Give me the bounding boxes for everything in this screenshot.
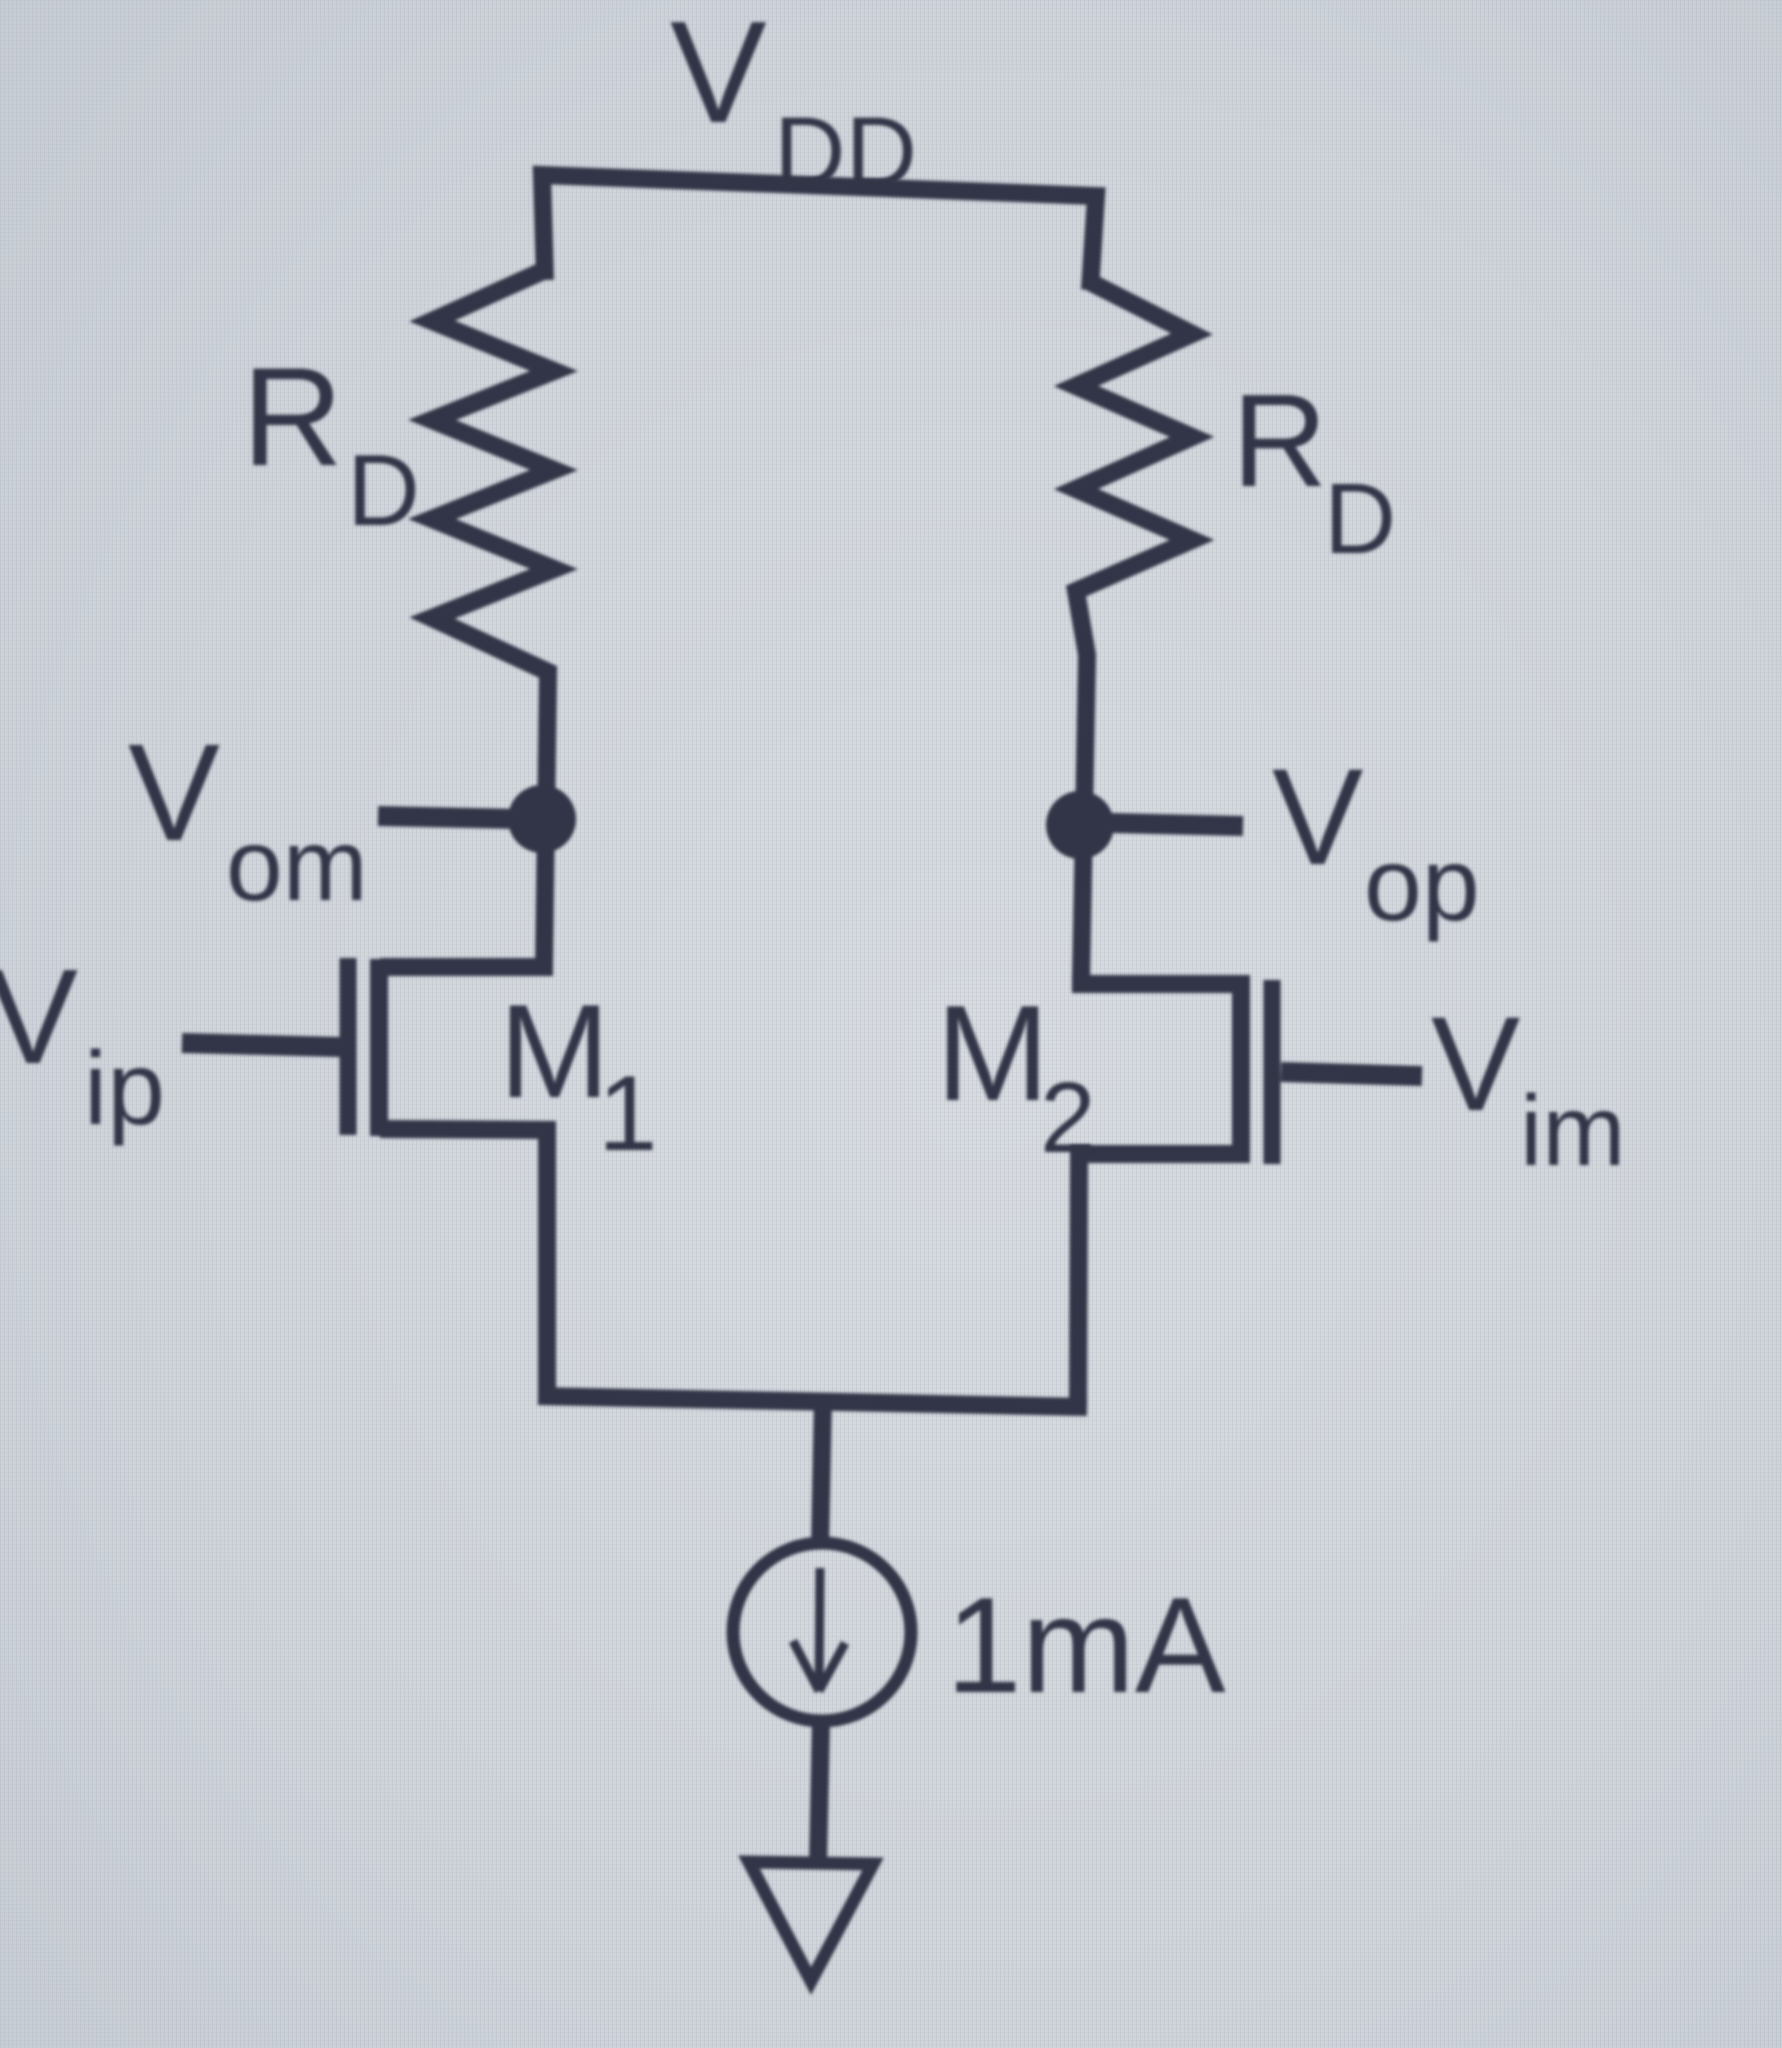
wire: Vop lead xyxy=(1110,823,1243,826)
wire: VDD top rail with corner stubs xyxy=(542,175,1096,290)
transistor M2 drain lead xyxy=(1072,975,1250,993)
svg-text:op: op xyxy=(1364,827,1480,943)
wire: Vom lead xyxy=(378,816,522,819)
svg-text:M: M xyxy=(936,977,1049,1129)
resistor RD (right) zigzag into drain wire xyxy=(1076,282,1192,984)
svg-text:V: V xyxy=(1431,990,1520,1139)
svg-text:D: D xyxy=(347,435,420,547)
transistor M1 drain lead xyxy=(380,958,553,976)
svg-text:M: M xyxy=(499,978,610,1126)
svg-text:im: im xyxy=(1520,1075,1626,1187)
wire: Vip gate lead xyxy=(182,1043,340,1047)
transistor M2 gate bar xyxy=(1264,980,1281,1164)
node A (Vom) dot xyxy=(508,785,576,853)
wire: M2 source lead down to bottom rail xyxy=(1078,1154,1250,1400)
svg-text:V: V xyxy=(0,941,78,1092)
svg-text:R: R xyxy=(242,338,343,495)
transistor M1 channel bar xyxy=(370,959,388,1136)
svg-text:V: V xyxy=(1272,741,1363,894)
current source I1 circle xyxy=(733,1543,911,1721)
node B (Vop) dot xyxy=(1046,791,1114,859)
svg-text:1mA: 1mA xyxy=(946,1569,1226,1721)
svg-text:D: D xyxy=(1324,463,1396,575)
current source arrow xyxy=(819,1568,820,1690)
ground xyxy=(749,1862,873,1981)
svg-text:om: om xyxy=(226,808,368,922)
svg-text:R: R xyxy=(1232,367,1327,514)
wire: current source to ground xyxy=(818,1721,821,1862)
transistor M1 gate bar xyxy=(340,958,357,1135)
wire: Vim gate lead xyxy=(1281,1072,1422,1076)
svg-text:V: V xyxy=(128,716,220,870)
wire: bottom rail joining sources xyxy=(538,1396,1087,1407)
transistor M2 channel bar xyxy=(1232,977,1250,1156)
wire: M1 source lead down to bottom rail xyxy=(380,1129,547,1400)
svg-text:1: 1 xyxy=(598,1053,658,1173)
svg-text:V: V xyxy=(670,0,767,153)
resistor RD (left) zigzag into drain wire xyxy=(432,270,554,967)
svg-text:2: 2 xyxy=(1040,1062,1096,1174)
svg-text:DD: DD xyxy=(774,96,917,207)
svg-text:ip: ip xyxy=(84,1031,165,1147)
wire: tail to current source xyxy=(820,1398,823,1548)
